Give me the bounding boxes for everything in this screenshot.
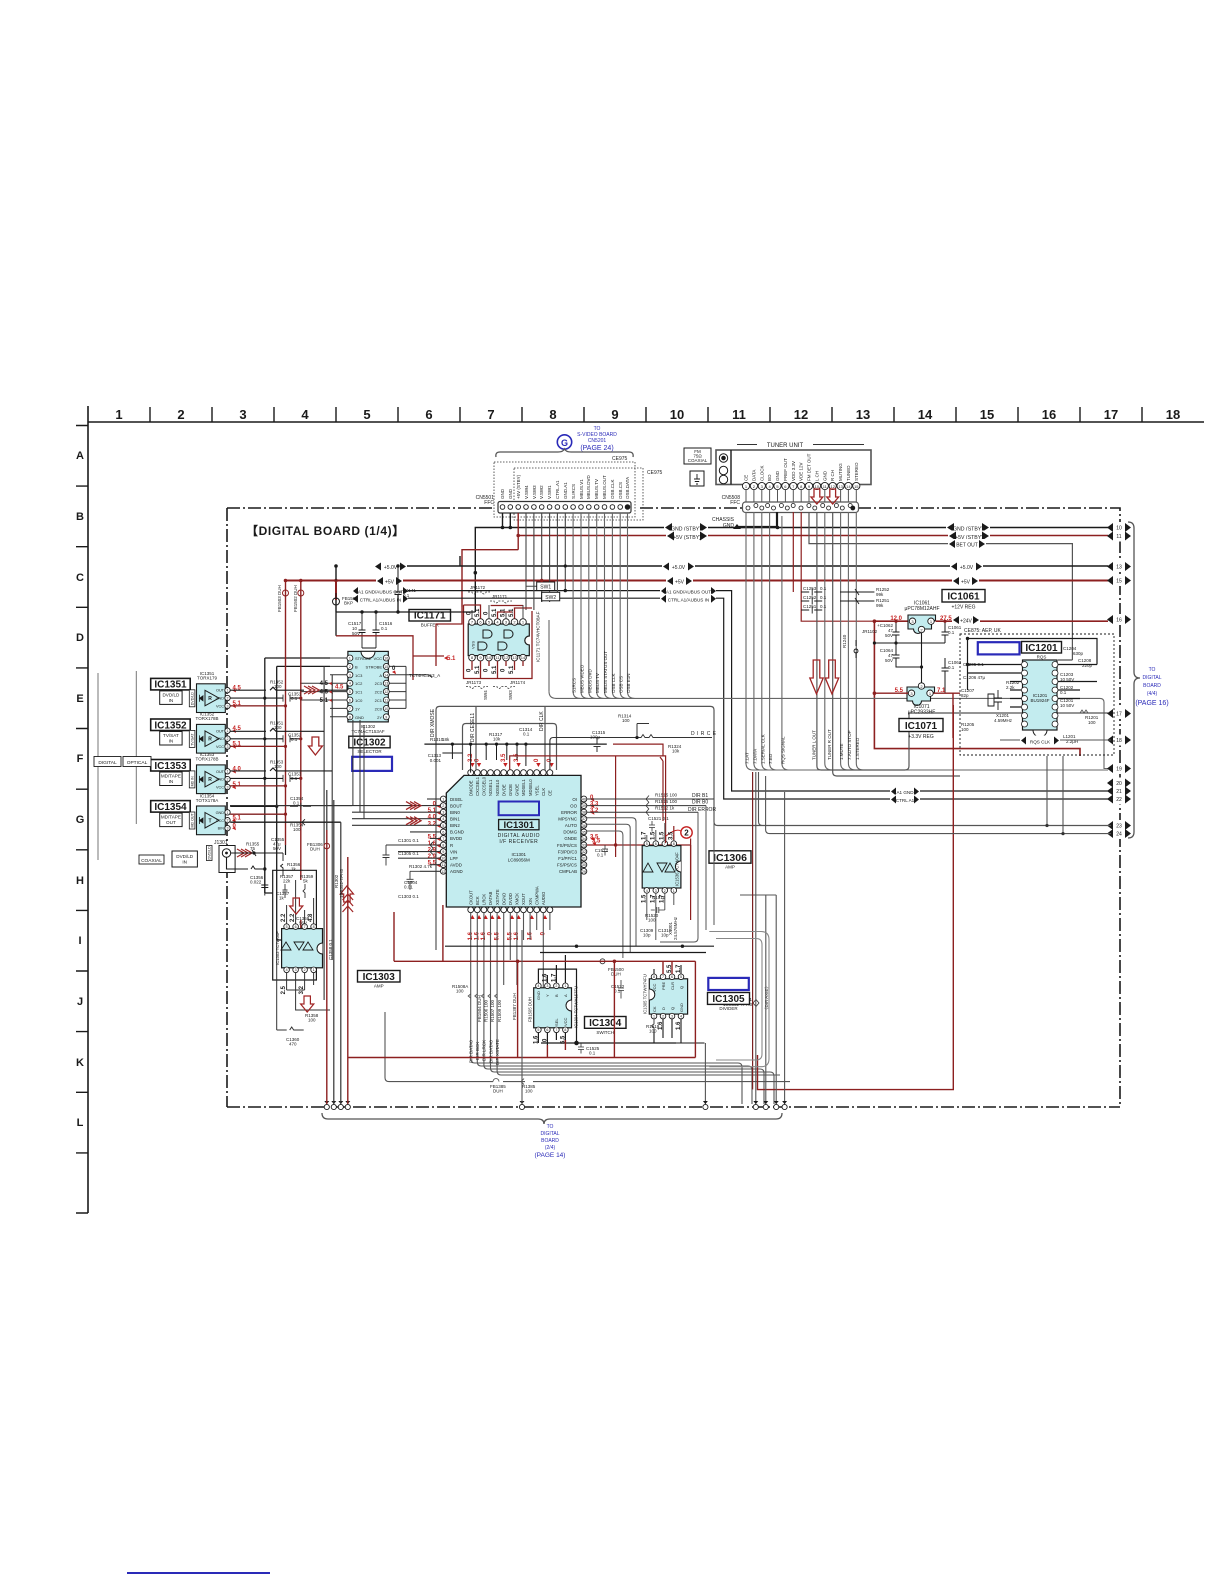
svg-text:IC1301: IC1301 bbox=[512, 852, 527, 857]
svg-text:FB1503 DUH: FB1503 DUH bbox=[277, 585, 282, 612]
svg-text:XIN: XIN bbox=[528, 898, 533, 905]
svg-text:JR1173: JR1173 bbox=[466, 680, 482, 685]
svg-text:DIR CESEL1: DIR CESEL1 bbox=[470, 713, 476, 742]
svg-text:SW3: SW3 bbox=[508, 690, 513, 700]
chassis gnd bbox=[712, 512, 777, 529]
svg-text:IC1536 TC7W04F: IC1536 TC7W04F bbox=[675, 852, 680, 886]
svg-text:6: 6 bbox=[671, 975, 673, 979]
svg-text:Q: Q bbox=[679, 986, 684, 989]
svg-text:CLOCK: CLOCK bbox=[759, 465, 764, 481]
svg-text:DATAB: DATAB bbox=[488, 891, 493, 905]
red wires IC1304/IC1305 zone bbox=[348, 705, 954, 1090]
svg-text:DUH: DUH bbox=[493, 1089, 503, 1094]
svg-text:13: 13 bbox=[512, 655, 517, 660]
svg-text:C1303 0.1: C1303 0.1 bbox=[398, 894, 419, 899]
components at IC1301 left bbox=[398, 838, 433, 899]
svg-text:R1512 1k: R1512 1k bbox=[655, 806, 675, 811]
svg-text:2: 2 bbox=[442, 804, 444, 808]
svg-text:DIGITAL: DIGITAL bbox=[540, 1131, 559, 1137]
capacitor C1522 bbox=[611, 980, 625, 999]
svg-text:DVD/LD: DVD/LD bbox=[191, 692, 195, 706]
wire +5.0V bus bbox=[336, 556, 1111, 612]
svg-text:2Y: 2Y bbox=[377, 715, 382, 720]
svg-text:XOUT: XOUT bbox=[521, 893, 526, 905]
svg-text:R1302 4.7k: R1302 4.7k bbox=[409, 864, 433, 869]
svg-text:0.1: 0.1 bbox=[1060, 690, 1067, 695]
IC1305 wires bbox=[654, 965, 705, 1043]
svg-text:13: 13 bbox=[1116, 565, 1122, 571]
svg-text:2: 2 bbox=[664, 889, 666, 893]
svg-text:FFC: FFC bbox=[484, 500, 494, 506]
svg-text:GND.A1: GND.A1 bbox=[563, 482, 568, 499]
ruler row ticks bbox=[76, 426, 88, 1214]
svg-text:3: 3 bbox=[349, 673, 351, 677]
svg-text:9: 9 bbox=[385, 715, 387, 719]
svg-text:7: 7 bbox=[304, 925, 306, 929]
svg-text:RQS: RQS bbox=[1037, 655, 1047, 660]
svg-text:5.1: 5.1 bbox=[447, 656, 456, 662]
svg-text:E: E bbox=[76, 693, 83, 705]
svg-text:CTRL A1/AUBUS IN: CTRL A1/AUBUS IN bbox=[668, 597, 709, 602]
wire tuner signal drops bbox=[746, 512, 1111, 770]
switch IC1304 label bbox=[585, 1017, 627, 1035]
svg-text:SELECTOR: SELECTOR bbox=[357, 749, 382, 754]
svg-text:5.1: 5.1 bbox=[509, 665, 515, 674]
svg-text:2: 2 bbox=[304, 968, 306, 972]
svg-text:21: 21 bbox=[1116, 789, 1122, 795]
svg-text:GND: GND bbox=[775, 470, 780, 481]
svg-text:2: 2 bbox=[227, 819, 229, 823]
label DVD/LD IN coax bbox=[172, 851, 197, 867]
net labels DIR data bbox=[469, 1039, 500, 1065]
svg-text:GND: GND bbox=[500, 488, 505, 499]
svg-text:+5V: +5V bbox=[961, 580, 971, 586]
svg-text:NDSEL1: NDSEL1 bbox=[488, 779, 493, 796]
svg-text:C1251: C1251 bbox=[803, 604, 817, 609]
svg-text:TV/SAT: TV/SAT bbox=[163, 733, 179, 738]
svg-text:AVDD: AVDD bbox=[450, 863, 462, 868]
svg-text:470: 470 bbox=[289, 1042, 297, 1047]
svg-text:3.2: 3.2 bbox=[428, 821, 437, 827]
IC1305 pin values bbox=[658, 964, 682, 1030]
svg-text:14: 14 bbox=[521, 655, 526, 660]
svg-text:R1507 100: R1507 100 bbox=[490, 999, 495, 1022]
svg-text:IC1351: IC1351 bbox=[154, 680, 187, 691]
svg-text:AGND: AGND bbox=[450, 869, 463, 874]
wire +24V red rail bbox=[874, 621, 1111, 756]
footer blue line bbox=[127, 1572, 270, 1574]
svg-text:16: 16 bbox=[384, 657, 388, 661]
svg-text:220p: 220p bbox=[1082, 663, 1093, 668]
wire +5V(STBY) bus bbox=[462, 513, 1111, 607]
svg-text:5: 5 bbox=[646, 842, 648, 846]
svg-text:A1 GND: A1 GND bbox=[896, 790, 914, 795]
svg-text:+5.0V: +5.0V bbox=[672, 565, 686, 571]
ruler column ticks bbox=[150, 407, 1142, 422]
jumpers JR1172 JR1171 bbox=[468, 582, 560, 603]
wire IC1061 to IC1071 bbox=[921, 633, 923, 683]
svg-text:4.59MHz: 4.59MHz bbox=[994, 718, 1013, 723]
svg-text:1C0: 1C0 bbox=[355, 698, 363, 703]
resistor R1356 bbox=[231, 853, 301, 876]
svg-text:CXCSEL1: CXCSEL1 bbox=[475, 776, 480, 796]
svg-text:D: D bbox=[76, 632, 84, 644]
board outline dash-dot bbox=[227, 508, 1120, 1107]
svg-text:DIR B1: DIR B1 bbox=[692, 793, 708, 799]
annotation TO DIGITAL BOARD (4/4) bbox=[1135, 667, 1168, 707]
svg-text:40: 40 bbox=[582, 798, 586, 802]
svg-text:C1305 0.1: C1305 0.1 bbox=[398, 851, 419, 856]
svg-text:C1253: C1253 bbox=[803, 586, 817, 591]
wire IC1071 rails bbox=[874, 693, 960, 738]
svg-text:CTRL A1/AUBUS IN: CTRL A1/AUBUS IN bbox=[360, 597, 401, 602]
svg-text:0.1: 0.1 bbox=[291, 696, 298, 701]
svg-text:A1 GND/AUBUS OUT: A1 GND/AUBUS OUT bbox=[666, 590, 711, 595]
net tag A1 GND (right) bbox=[890, 787, 920, 796]
svg-text:3.3: 3.3 bbox=[590, 802, 599, 808]
svg-text:C1521 0.1: C1521 0.1 bbox=[648, 816, 669, 821]
svg-text:+5V: +5V bbox=[675, 580, 685, 586]
svg-text:34: 34 bbox=[582, 837, 586, 841]
svg-text:IC1353: IC1353 bbox=[154, 761, 187, 772]
svg-text:BU1924F: BU1924F bbox=[1030, 698, 1049, 703]
svg-text:10p: 10p bbox=[643, 933, 651, 938]
svg-text:2: 2 bbox=[227, 737, 229, 741]
svg-text:15: 15 bbox=[854, 484, 859, 489]
svg-text:IN: IN bbox=[169, 698, 174, 703]
svg-text:G: G bbox=[76, 814, 85, 826]
svg-text:DUH: DUH bbox=[310, 847, 320, 852]
svg-text:8: 8 bbox=[653, 975, 655, 979]
svg-text:RQS CLK: RQS CLK bbox=[1030, 740, 1051, 745]
svg-text:5.1: 5.1 bbox=[475, 608, 481, 617]
svg-text:1k: 1k bbox=[279, 896, 285, 901]
svg-text:10: 10 bbox=[384, 707, 388, 711]
svg-text:39: 39 bbox=[582, 804, 586, 808]
svg-text:12: 12 bbox=[441, 870, 445, 874]
net tag CTRL A1 (right) bbox=[890, 795, 920, 804]
svg-text:YSEL: YSEL bbox=[534, 785, 539, 796]
svg-text:20: 20 bbox=[1116, 781, 1122, 787]
svg-text:TORX178B: TORX178B bbox=[196, 757, 219, 762]
svg-text:33: 33 bbox=[582, 844, 586, 848]
svg-text:0.01: 0.01 bbox=[404, 885, 413, 890]
svg-text:+5.0V: +5.0V bbox=[384, 565, 398, 571]
svg-text:IC1171 TC74VHCT08AF: IC1171 TC74VHCT08AF bbox=[536, 611, 541, 662]
svg-text:VDE 12V: VDE 12V bbox=[799, 462, 804, 481]
wire CTRL A1/AUBUS IN bbox=[398, 598, 1111, 799]
svg-text:OSB.DATA: OSB.DATA bbox=[625, 477, 630, 499]
svg-text:18k: 18k bbox=[442, 737, 450, 742]
blue callout box IC1305 bbox=[708, 978, 749, 990]
IC1301 top pins bbox=[468, 753, 554, 796]
IC1171 red pin values bbox=[467, 608, 516, 674]
signal verticals to lower area bbox=[324, 666, 332, 1000]
svg-text:0.1: 0.1 bbox=[820, 595, 827, 600]
svg-text:10: 10 bbox=[487, 655, 492, 660]
svg-text:MBUS.DVD: MBUS.DVD bbox=[586, 474, 591, 499]
svg-text:IC1061: IC1061 bbox=[947, 592, 980, 603]
svg-text:DIGITAL: DIGITAL bbox=[98, 760, 117, 766]
svg-text:C: C bbox=[76, 572, 84, 584]
svg-text:DIR DATA0: DIR DATA0 bbox=[488, 1040, 493, 1063]
svg-text:V.SW3: V.SW3 bbox=[532, 485, 537, 499]
svg-text:10: 10 bbox=[815, 484, 820, 489]
svg-text:JR1171: JR1171 bbox=[492, 594, 508, 599]
IC1351 wires bbox=[230, 680, 347, 708]
svg-text:VCC: VCC bbox=[563, 1017, 568, 1026]
svg-text:19: 19 bbox=[1116, 767, 1122, 773]
svg-text:BKP: BKP bbox=[344, 601, 353, 606]
wires IC1301 left pin leads bbox=[230, 799, 440, 871]
svg-text:10: 10 bbox=[441, 857, 445, 861]
svg-text:JR1102: JR1102 bbox=[862, 629, 878, 634]
regulator IC1061 label bbox=[942, 590, 985, 611]
svg-text:SW4: SW4 bbox=[483, 690, 488, 700]
svg-text:14: 14 bbox=[384, 673, 388, 677]
svg-text:VCC: VCC bbox=[216, 819, 224, 823]
svg-text:8: 8 bbox=[673, 842, 675, 846]
IC1301 bottom pins bbox=[468, 886, 553, 940]
blue callout box IC1201 bbox=[978, 642, 1020, 654]
svg-text:6: 6 bbox=[349, 699, 351, 703]
svg-text:DIR DATA0: DIR DATA0 bbox=[469, 1040, 474, 1063]
svg-text:5.1: 5.1 bbox=[492, 608, 498, 617]
wire rail to IC1302 bbox=[336, 595, 475, 636]
svg-text:S1RCS: S1RCS bbox=[572, 678, 577, 693]
svg-text:0.1: 0.1 bbox=[589, 1051, 596, 1056]
svg-text:8: 8 bbox=[564, 1028, 566, 1032]
wire CTRL.A1 GND.A1 drops bbox=[556, 513, 567, 600]
svg-text:GND: GND bbox=[679, 1003, 684, 1012]
svg-text:10k: 10k bbox=[493, 737, 501, 742]
amp IC1306 chip bbox=[642, 841, 681, 893]
capacitor C1356 bbox=[250, 869, 268, 896]
svg-text:SEL: SEL bbox=[554, 1018, 559, 1026]
svg-text:1: 1 bbox=[227, 770, 229, 774]
svg-text:FB1387 DUH: FB1387 DUH bbox=[512, 993, 517, 1020]
svg-text:5.1: 5.1 bbox=[501, 608, 507, 617]
ruler column numbers bbox=[115, 407, 1180, 422]
svg-text:B: B bbox=[554, 994, 559, 997]
svg-text:4: 4 bbox=[286, 968, 288, 972]
svg-text:2C1: 2C1 bbox=[375, 698, 383, 703]
svg-text:CE975: CE975 bbox=[647, 470, 663, 476]
svg-text:100: 100 bbox=[293, 827, 301, 832]
svg-text:7.BO: 7.BO bbox=[768, 753, 773, 764]
svg-text:0.1: 0.1 bbox=[597, 853, 604, 858]
svg-text:5k: 5k bbox=[303, 879, 309, 884]
svg-text:0.1: 0.1 bbox=[293, 801, 300, 806]
svg-text:DATA: DATA bbox=[751, 470, 756, 481]
svg-text:1: 1 bbox=[349, 657, 351, 661]
svg-text:STEREO: STEREO bbox=[854, 462, 859, 481]
svg-text:15: 15 bbox=[1116, 579, 1122, 585]
svg-text:7: 7 bbox=[487, 407, 494, 422]
svg-text:IC1071: IC1071 bbox=[905, 721, 938, 732]
svg-text:IC1352: IC1352 bbox=[154, 720, 187, 731]
svg-text:VSS: VSS bbox=[471, 641, 476, 649]
svg-text:CE875: AEP, UK: CE875: AEP, UK bbox=[964, 628, 1002, 634]
svg-text:SW2: SW2 bbox=[545, 595, 556, 601]
wires DIR B1/B0/ERROR bbox=[587, 793, 717, 839]
svg-text:OUT: OUT bbox=[216, 729, 225, 733]
svg-text:MDSEL0: MDSEL0 bbox=[528, 779, 533, 796]
wires IC1301 bottom drops bbox=[471, 913, 780, 1104]
wire to tag 23 vertical bbox=[759, 772, 763, 826]
svg-text:11: 11 bbox=[1116, 534, 1121, 540]
capacitor C1517 C1516 bbox=[348, 612, 393, 648]
optical module IC1352 bbox=[151, 712, 242, 753]
IC1302 left red values bbox=[320, 666, 396, 704]
svg-text:R1510: R1510 bbox=[652, 895, 666, 900]
svg-text:9: 9 bbox=[442, 850, 444, 854]
svg-text:IC1354: IC1354 bbox=[154, 802, 187, 813]
svg-text:OSB E1N: OSB E1N bbox=[626, 673, 631, 693]
svg-text:IN: IN bbox=[169, 779, 174, 784]
IC1302 pin wires bbox=[300, 658, 432, 717]
svg-text:XMCK: XMCK bbox=[515, 893, 520, 905]
connector CN5508 body bbox=[743, 502, 859, 513]
svg-text:(PAGE 24): (PAGE 24) bbox=[580, 445, 613, 452]
svg-text:BOARD: BOARD bbox=[541, 1138, 559, 1144]
svg-text:100: 100 bbox=[308, 1018, 316, 1023]
svg-text:TO: TO bbox=[547, 1124, 554, 1130]
svg-text:CXMPWA: CXMPWA bbox=[534, 886, 539, 905]
capacitor C1063 bbox=[942, 658, 962, 693]
svg-text:+5.0V: +5.0V bbox=[960, 565, 974, 571]
svg-text:K: K bbox=[76, 1057, 84, 1069]
svg-text:100μ: 100μ bbox=[590, 735, 601, 740]
svg-text:IC1304: IC1304 bbox=[589, 1018, 622, 1029]
net tag +5V (STBY) bbox=[666, 531, 990, 542]
svg-text:6: 6 bbox=[546, 1028, 548, 1032]
svg-text:CMPLAB: CMPLAB bbox=[559, 869, 577, 874]
svg-text:MD OUT: MD OUT bbox=[191, 813, 195, 828]
svg-text:3: 3 bbox=[227, 745, 229, 749]
svg-text:C1301 0.1: C1301 0.1 bbox=[398, 838, 419, 843]
svg-text:MBUS.OUT: MBUS.OUT bbox=[602, 475, 607, 499]
svg-text:7.AUTO STOP: 7.AUTO STOP bbox=[847, 730, 852, 760]
svg-text:2.9: 2.9 bbox=[428, 848, 437, 854]
svg-text:T: T bbox=[208, 818, 211, 824]
wire RQS signal down right bbox=[752, 772, 754, 1089]
svg-text:C1252: C1252 bbox=[803, 595, 817, 600]
svg-text:DOMG: DOMG bbox=[563, 830, 577, 835]
svg-text:L: L bbox=[77, 1117, 84, 1129]
svg-text:VCC: VCC bbox=[374, 656, 383, 661]
svg-text:10: 10 bbox=[1116, 526, 1122, 532]
net labels tuner signals bbox=[745, 729, 860, 764]
svg-text:1SS352-TPH5: 1SS352-TPH5 bbox=[339, 868, 344, 898]
oscillator IC1201 label bbox=[1022, 642, 1062, 660]
red hollow arrows L/R ch bbox=[810, 489, 839, 694]
switch IC1304 chip bbox=[528, 983, 579, 1033]
net tag RQS CLK bbox=[1000, 736, 1111, 745]
svg-text:4: 4 bbox=[442, 817, 444, 821]
svg-text:μPC2933HF: μPC2933HF bbox=[908, 710, 936, 716]
svg-text:V.SW4: V.SW4 bbox=[524, 485, 529, 499]
svg-text:GND: GND bbox=[216, 811, 225, 815]
svg-text:FB1505 DUH: FB1505 DUH bbox=[528, 997, 533, 1022]
svg-text:(PAGE 16): (PAGE 16) bbox=[1135, 700, 1168, 707]
IC1303 pin wires bbox=[287, 880, 330, 1010]
crystal X1201 bbox=[988, 690, 1013, 723]
svg-text:Y: Y bbox=[545, 994, 550, 997]
svg-text:DIR CLK: DIR CLK bbox=[539, 711, 545, 731]
svg-text:BIN1: BIN1 bbox=[450, 817, 460, 822]
svg-text:D: D bbox=[661, 1007, 666, 1010]
ferrite bead FB1501 bbox=[333, 566, 359, 613]
dotted box CE875 AEP UK bbox=[960, 634, 1114, 755]
amp IC1303 subcircuit box bbox=[265, 845, 317, 980]
buffer IC1171 label bbox=[409, 610, 451, 628]
svg-text:100: 100 bbox=[456, 989, 464, 994]
svg-text:DVD/LD: DVD/LD bbox=[162, 692, 180, 697]
node G to S-VIDEO BOARD annotation bbox=[557, 426, 617, 452]
red hollow arrows IC1303 bbox=[290, 886, 354, 1012]
capacitor C1521 bbox=[648, 816, 669, 832]
red chevron arrows into IC1301 bbox=[406, 802, 421, 825]
svg-text:1: 1 bbox=[227, 729, 229, 733]
svg-text:100: 100 bbox=[525, 1089, 533, 1094]
svg-text:3: 3 bbox=[227, 827, 229, 831]
svg-text:(PAGE 14): (PAGE 14) bbox=[535, 1152, 566, 1159]
svg-text:100: 100 bbox=[961, 727, 969, 732]
capacitor C1360 bbox=[277, 940, 304, 1047]
resistor R1355 bbox=[231, 842, 267, 871]
svg-text:14: 14 bbox=[846, 484, 851, 489]
svg-text:FS/PS/CS: FS/PS/CS bbox=[557, 843, 577, 848]
svg-text:4: 4 bbox=[680, 1015, 682, 1019]
optical module IC1353 bbox=[151, 752, 242, 793]
svg-text:29: 29 bbox=[582, 870, 586, 874]
label DIGITAL bbox=[94, 757, 121, 767]
svg-text:15: 15 bbox=[384, 665, 388, 669]
svg-text:CE: CE bbox=[744, 475, 749, 481]
svg-text:22k: 22k bbox=[283, 879, 291, 884]
svg-text:6: 6 bbox=[442, 830, 444, 834]
red circled 2 bbox=[666, 827, 692, 838]
FM 75ohm coaxial jack bbox=[684, 448, 711, 486]
svg-text:8: 8 bbox=[442, 844, 444, 848]
oscillator IC1201 chip bbox=[1022, 660, 1059, 737]
svg-text:7: 7 bbox=[555, 1028, 557, 1032]
svg-text:FFC: FFC bbox=[730, 500, 740, 506]
svg-text:STROBE: STROBE bbox=[355, 656, 372, 661]
svg-text:11: 11 bbox=[441, 863, 445, 867]
svg-text:SW1: SW1 bbox=[540, 585, 551, 591]
wire DIR CE bbox=[550, 714, 717, 771]
svg-text:8: 8 bbox=[549, 407, 556, 422]
resistor R1301 bbox=[723, 997, 759, 1007]
wire FB1385 bottom bus bbox=[385, 1012, 790, 1094]
wire tuner 12V feed bbox=[793, 512, 874, 621]
svg-text:0.1: 0.1 bbox=[523, 732, 530, 737]
svg-text:GND: GND bbox=[536, 991, 541, 1000]
svg-text:R: R bbox=[208, 737, 212, 743]
svg-text:1: 1 bbox=[442, 798, 444, 802]
svg-text:5.1: 5.1 bbox=[428, 808, 437, 814]
svg-text:GND: GND bbox=[822, 470, 827, 481]
svg-text:A: A bbox=[379, 673, 382, 678]
svg-text:LRCK: LRCK bbox=[482, 894, 487, 905]
IC1303 pin values bbox=[281, 913, 314, 994]
svg-text:CLR: CLR bbox=[670, 982, 675, 990]
svg-text:15: 15 bbox=[980, 407, 994, 422]
svg-text:1Y: 1Y bbox=[355, 706, 360, 711]
svg-text:MD/TAPE: MD/TAPE bbox=[161, 815, 181, 820]
